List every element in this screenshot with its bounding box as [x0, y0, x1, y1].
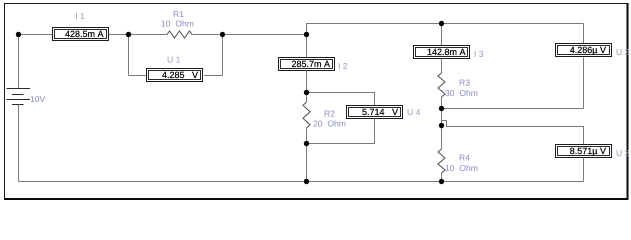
wire [306, 71, 308, 103]
ammeter I2 [279, 58, 348, 72]
node [16, 32, 21, 37]
ammeter I3 [414, 46, 484, 60]
node [439, 21, 444, 26]
svg-text:8.571µ V: 8.571µ V [570, 146, 606, 156]
svg-text:R2: R2 [324, 108, 335, 118]
voltmeter U2 [556, 44, 630, 58]
wire [583, 24, 585, 44]
svg-text:20 Ohm: 20 Ohm [313, 119, 346, 129]
svg-text:R4: R4 [459, 153, 470, 163]
node [439, 179, 444, 184]
wire [222, 35, 224, 76]
wire [307, 93, 375, 106]
battery V1 [7, 35, 46, 182]
svg-text:285.7m A: 285.7m A [291, 59, 330, 69]
wire [306, 35, 308, 58]
node [126, 32, 131, 37]
node [439, 123, 444, 128]
wire [109, 34, 167, 36]
svg-text:10 Ohm: 10 Ohm [445, 163, 478, 173]
wire [442, 108, 584, 110]
node [220, 32, 225, 37]
svg-text:I 3: I 3 [474, 49, 484, 59]
svg-text:U 2: U 2 [616, 47, 630, 57]
wire [441, 24, 443, 46]
node [439, 106, 444, 111]
wire [19, 181, 584, 183]
svg-text:10V: 10V [30, 94, 46, 104]
svg-text:U 4: U 4 [407, 107, 421, 117]
svg-text:I 2: I 2 [338, 61, 348, 71]
node [304, 179, 309, 184]
node [304, 90, 309, 95]
svg-text:30 Ohm: 30 Ohm [445, 88, 478, 98]
resistor R2 [303, 102, 346, 129]
svg-text:4.285 V: 4.285 V [162, 70, 198, 80]
wire [307, 119, 375, 144]
svg-text:U 3: U 3 [616, 148, 630, 158]
resistor R4 [438, 149, 478, 173]
wire [19, 34, 53, 36]
svg-text:5.714 V: 5.714 V [362, 107, 398, 117]
resistor R1 [161, 9, 194, 38]
wire [441, 59, 443, 74]
wire [307, 24, 584, 35]
wire [204, 75, 223, 77]
wire [441, 97, 443, 149]
wire [583, 58, 585, 109]
svg-text:142.8m A: 142.8m A [427, 47, 466, 57]
svg-text:10 Ohm: 10 Ohm [161, 18, 194, 28]
wire [128, 35, 130, 76]
wire [583, 158, 585, 182]
svg-text:I 1: I 1 [75, 11, 85, 21]
wire [442, 121, 584, 145]
node [304, 32, 309, 37]
voltmeter U3 [556, 145, 630, 159]
svg-text:R3: R3 [459, 78, 470, 88]
wire [129, 75, 147, 77]
wire [441, 173, 443, 182]
wire [192, 34, 307, 36]
voltmeter U4 [347, 106, 421, 119]
svg-text:428.5m A: 428.5m A [65, 29, 104, 39]
svg-text:U 1: U 1 [167, 55, 181, 65]
svg-text:4.286µ V: 4.286µ V [570, 45, 606, 55]
node [304, 141, 309, 146]
ammeter I1 [53, 11, 109, 41]
wire [306, 128, 308, 182]
voltmeter U1 [147, 55, 203, 82]
resistor R3 [438, 73, 478, 98]
